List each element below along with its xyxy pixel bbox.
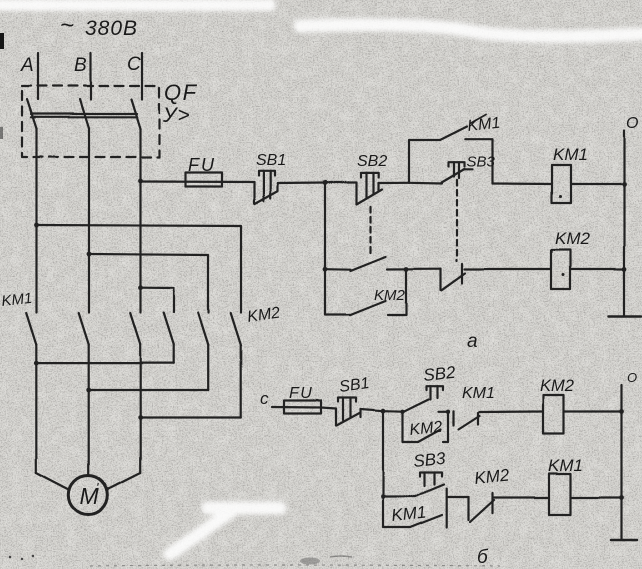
svg-text:SB1: SB1 [256, 152, 286, 169]
svg-text:SB2: SB2 [422, 363, 456, 385]
svg-text:380B: 380B [85, 17, 138, 40]
svg-text:KM2: KM2 [555, 229, 591, 248]
svg-text:SB3: SB3 [467, 154, 496, 171]
svg-text:KM2: KM2 [473, 465, 510, 488]
svg-text:KM2: KM2 [540, 377, 574, 395]
svg-text:O: O [627, 370, 637, 385]
svg-text:a: a [467, 331, 478, 352]
svg-text:б: б [477, 547, 489, 568]
svg-text:B: B [74, 55, 87, 76]
svg-text:C: C [127, 54, 141, 75]
svg-text:KM1: KM1 [467, 115, 502, 135]
svg-text:KM2: KM2 [374, 287, 406, 304]
svg-text:KM2: KM2 [409, 419, 444, 439]
svg-text:c: c [260, 389, 269, 408]
svg-text:SB3: SB3 [412, 449, 446, 471]
svg-text:KM1: KM1 [553, 145, 588, 164]
svg-text:A: A [20, 55, 34, 76]
svg-text:У>: У> [162, 104, 191, 127]
svg-text:SB2: SB2 [357, 153, 387, 170]
svg-text:KM1: KM1 [548, 456, 583, 475]
svg-text:KM1: KM1 [462, 385, 495, 402]
svg-text:FU: FU [289, 385, 313, 402]
svg-text:KM1: KM1 [1, 290, 33, 310]
svg-text:QF: QF [164, 80, 198, 105]
svg-text:O: O [626, 115, 638, 132]
svg-text:KM1: KM1 [390, 502, 427, 525]
svg-text:FU: FU [188, 155, 216, 175]
svg-text:~: ~ [60, 12, 74, 39]
